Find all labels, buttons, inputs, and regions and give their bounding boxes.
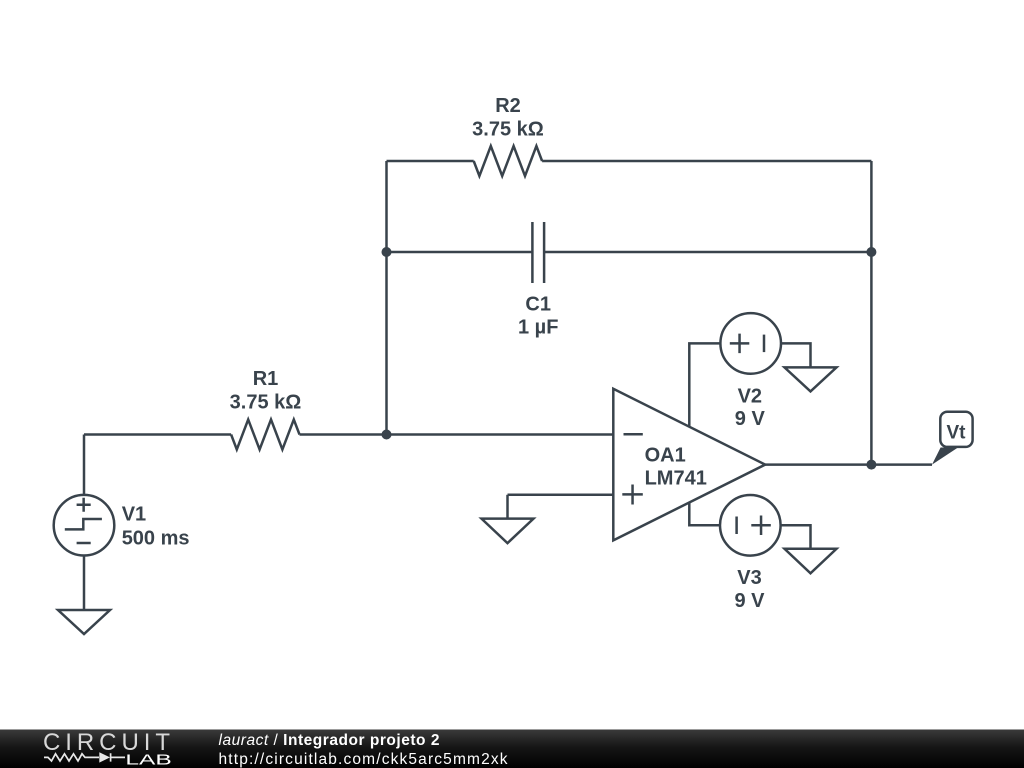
- resistor R1: [231, 420, 299, 450]
- ground V1: [58, 610, 110, 634]
- wire V1 bottom: [83, 556, 86, 611]
- wire V2 to ground: [781, 343, 811, 367]
- node junction left input: [382, 430, 392, 440]
- svg-text:Vt: Vt: [947, 423, 967, 444]
- ground V3: [785, 549, 837, 574]
- svg-text:LM741: LM741: [645, 467, 707, 489]
- node junction left capacitor: [382, 247, 392, 257]
- svg-text:R2: R2: [495, 95, 521, 117]
- wire noninverting to ground: [506, 495, 509, 519]
- wire input left segment: [84, 433, 231, 436]
- svg-text:http://circuitlab.com/ckk5arc5: http://circuitlab.com/ckk5arc5mm2xk: [219, 751, 508, 768]
- svg-text:3.75 kΩ: 3.75 kΩ: [472, 118, 544, 140]
- svg-text:500 ms: 500 ms: [122, 528, 190, 550]
- wire right vertical feedback: [870, 161, 873, 465]
- node junction right capacitor: [866, 247, 876, 257]
- CircuitLab logo resistor-diode glyph: [44, 752, 125, 762]
- wire V3 to ground: [781, 525, 811, 549]
- svg-text:OA1: OA1: [645, 445, 686, 467]
- svg-text:3.75 kΩ: 3.75 kΩ: [230, 392, 302, 414]
- wire V2 to op-amp top: [689, 343, 720, 427]
- voltage source V2: [720, 313, 781, 374]
- svg-text:9 V: 9 V: [734, 590, 765, 612]
- wire middle right segment: [544, 251, 871, 254]
- svg-text:LAB: LAB: [125, 752, 171, 768]
- node junction output: [866, 460, 876, 470]
- net flag Vt box: [940, 412, 972, 447]
- net flag Vt tail: [932, 448, 958, 465]
- wire noninverting input: [508, 494, 614, 497]
- wire top right segment: [542, 160, 871, 163]
- svg-text:C1: C1: [525, 294, 551, 316]
- svg-text:1 µF: 1 µF: [518, 317, 558, 339]
- svg-text:9 V: 9 V: [735, 408, 766, 430]
- resistor R2: [474, 146, 542, 176]
- op-amp OA1: [613, 389, 765, 541]
- ground noninverting input: [482, 519, 534, 544]
- footer bar: [0, 730, 1024, 768]
- capacitor C1: [532, 222, 544, 283]
- svg-text:V3: V3: [737, 567, 761, 589]
- wire middle left segment: [387, 251, 533, 254]
- svg-text:R1: R1: [253, 368, 279, 390]
- voltage source V3: [720, 495, 781, 556]
- svg-text:lauract / Integrador projeto 2: lauract / Integrador projeto 2: [219, 732, 440, 749]
- wire V1 top: [83, 435, 86, 495]
- wire V3 to op-amp bottom: [689, 502, 720, 525]
- voltage source V1: [54, 495, 115, 556]
- wire output: [765, 463, 932, 466]
- wire top left segment: [387, 160, 474, 163]
- svg-text:V1: V1: [122, 504, 146, 526]
- svg-text:V2: V2: [738, 385, 762, 407]
- wire input right segment: [300, 433, 614, 436]
- ground V2: [785, 367, 837, 391]
- wire left vertical feedback: [385, 161, 388, 435]
